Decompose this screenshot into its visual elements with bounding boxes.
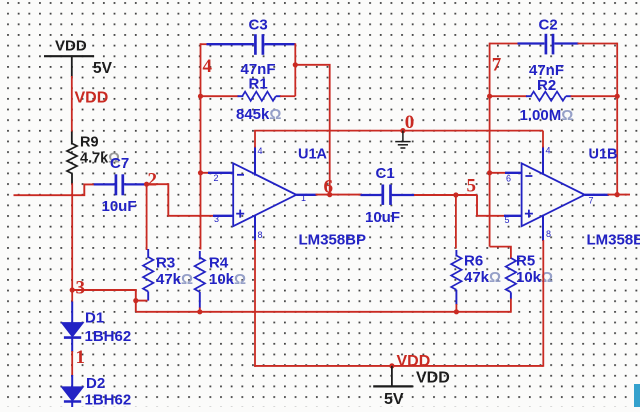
junction R2 right xyxy=(615,94,620,99)
svg-text:LM358BP: LM358BP xyxy=(299,232,367,249)
resistor R6 xyxy=(451,256,461,290)
wire R9/node3 vertical xyxy=(71,183,73,290)
svg-text:U1B: U1B xyxy=(589,147,618,163)
junction U1B output xyxy=(615,192,620,197)
op-amp U1A minus sign xyxy=(237,174,244,176)
wire VDD stem black upper xyxy=(71,56,73,77)
op-amp U1A plus sign xyxy=(236,210,244,218)
resistor R2 left lead xyxy=(526,95,532,97)
wire bottom rail xyxy=(136,311,511,313)
svg-text:VDD: VDD xyxy=(397,353,431,370)
wire R4 bottom xyxy=(199,308,201,312)
junction node4 minus input xyxy=(198,170,203,175)
svg-text:VDD: VDD xyxy=(75,90,109,107)
diode D1 top lead blue xyxy=(71,302,73,324)
capacitor C3 left lead xyxy=(207,43,254,45)
svg-text:U1A: U1A xyxy=(298,147,328,163)
svg-text:1BH62: 1BH62 xyxy=(85,328,132,345)
wire U1B pin4 to gnd rail xyxy=(542,131,544,148)
junction R3 bottom xyxy=(133,298,138,303)
svg-text:LM358BP: LM358BP xyxy=(587,232,640,249)
wire VDD stem red xyxy=(71,76,73,132)
svg-text:C3: C3 xyxy=(249,17,268,34)
wire VDD bottom rail xyxy=(254,365,543,367)
op-amp U1B plus lead xyxy=(504,215,522,217)
wire minus input stub xyxy=(201,172,212,174)
resistor R3 top lead xyxy=(147,249,149,258)
svg-text:3: 3 xyxy=(76,278,86,299)
wire node6 to C1 xyxy=(361,194,362,196)
power VDD bottom stem xyxy=(391,366,393,387)
wire R2 right xyxy=(571,95,618,97)
wire C1 to node5 xyxy=(414,194,477,196)
wire input horizontal xyxy=(14,184,95,195)
diode D1 top lead red xyxy=(71,290,73,303)
svg-text:C1: C1 xyxy=(376,165,395,182)
svg-text:845kΩ: 845kΩ xyxy=(236,106,281,123)
wire node4 vertical xyxy=(200,43,202,249)
wire feedback to output xyxy=(295,65,329,195)
junction ground xyxy=(400,128,405,133)
wire ground rail xyxy=(254,130,543,132)
resistor R5 xyxy=(506,258,516,292)
svg-text:1BH62: 1BH62 xyxy=(85,392,132,408)
wire R6 bottom xyxy=(455,304,457,312)
svg-text:R6: R6 xyxy=(464,253,483,270)
resistor R3 xyxy=(143,257,153,292)
svg-text:D1: D1 xyxy=(85,310,104,327)
svg-text:VDD: VDD xyxy=(55,38,87,55)
op-amp U1B plus sign xyxy=(525,210,533,218)
svg-text:10uF: 10uF xyxy=(365,209,400,226)
op-amp U1A plus lead xyxy=(213,215,233,217)
svg-text:5V: 5V xyxy=(93,60,113,77)
resistor R9 xyxy=(67,144,77,174)
node 2 junction xyxy=(144,182,149,187)
capacitor C1 right lead xyxy=(392,194,415,196)
junction node6 xyxy=(327,192,332,197)
ground symbol xyxy=(395,131,410,148)
wire C3 right vertical xyxy=(294,43,296,96)
svg-text:5: 5 xyxy=(467,176,477,197)
svg-text:1: 1 xyxy=(301,193,306,203)
svg-text:10kΩ: 10kΩ xyxy=(516,269,553,286)
node 3 junction xyxy=(70,287,75,292)
junction node5 xyxy=(453,192,458,197)
op-amp U1A output lead xyxy=(296,194,316,196)
svg-text:R1: R1 xyxy=(249,76,268,93)
resistor R1 xyxy=(242,92,275,101)
wire net1 xyxy=(71,351,73,376)
ui scrollbar fragment xyxy=(634,384,640,407)
wire R9 top lead black xyxy=(71,132,73,145)
op-amp U1A pin8 stub xyxy=(254,215,256,241)
wire R9 bottom lead black xyxy=(71,174,73,184)
op-amp U1A minus lead xyxy=(208,172,233,174)
resistor R3 bottom lead xyxy=(147,292,149,301)
svg-text:47kΩ: 47kΩ xyxy=(464,269,501,286)
wire R1 left xyxy=(201,95,239,97)
wire U1A pin8 down xyxy=(254,240,256,367)
op-amp U1A pin4 stub xyxy=(254,147,256,176)
capacitor C2 xyxy=(545,34,548,55)
capacitor C3 right lead xyxy=(264,43,295,45)
capacitor C1 xyxy=(381,185,384,205)
svg-text:1: 1 xyxy=(76,347,86,368)
op-amp U1A triangle xyxy=(233,163,296,226)
resistor R1 right lead xyxy=(276,95,281,97)
resistor R2 xyxy=(531,92,566,101)
capacitor C7 right lead xyxy=(124,183,147,185)
op-amp U1B minus sign xyxy=(525,175,532,177)
svg-text:R3: R3 xyxy=(156,255,175,272)
op-amp U1B pin8 stub xyxy=(542,215,544,241)
resistor R4 top lead xyxy=(199,251,201,259)
svg-text:5: 5 xyxy=(505,215,510,225)
resistor R4 xyxy=(195,258,205,293)
wire U1B output xyxy=(608,194,631,196)
svg-text:7: 7 xyxy=(589,196,594,206)
svg-text:7: 7 xyxy=(492,54,502,75)
wire U1B minus stub xyxy=(490,172,507,174)
resistor R5 bottom lead xyxy=(510,292,512,299)
junction R4 bottom xyxy=(197,309,202,314)
diode D1 bottom lead xyxy=(71,338,73,352)
resistor R4 bottom lead xyxy=(199,292,201,309)
svg-text:1.00MΩ: 1.00MΩ xyxy=(520,107,574,124)
svg-text:0: 0 xyxy=(405,112,415,133)
svg-text:8: 8 xyxy=(546,229,551,239)
resistor R2 right lead xyxy=(566,95,572,97)
wire node3 to R3 xyxy=(72,290,136,312)
capacitor C3 xyxy=(254,34,257,55)
svg-text:R5: R5 xyxy=(516,253,535,270)
power VDD bottom bar xyxy=(373,385,413,387)
wire node5 to U1B plus xyxy=(477,195,506,216)
capacitor C1 left lead xyxy=(361,194,382,196)
diode D1 xyxy=(61,323,83,337)
junction VDD bottom xyxy=(389,363,394,368)
svg-text:6: 6 xyxy=(324,177,334,198)
op-amp U1B minus lead xyxy=(505,172,522,174)
capacitor C7 xyxy=(115,174,118,195)
junction feedback tap xyxy=(293,62,298,67)
svg-text:4: 4 xyxy=(203,56,213,77)
wire R5 bottom xyxy=(510,299,512,313)
wire C2 box right vertical xyxy=(616,43,618,195)
svg-text:5V: 5V xyxy=(384,391,404,407)
wire C2 box top-left xyxy=(490,43,519,45)
svg-text:6: 6 xyxy=(506,174,511,184)
wire node7 vertical xyxy=(489,43,491,247)
wire U1B pin8 down xyxy=(542,240,544,367)
resistor R1 left lead xyxy=(238,95,244,97)
wire U1A output xyxy=(316,194,363,196)
svg-text:4: 4 xyxy=(546,146,551,156)
wire R3 bottom stub xyxy=(136,300,148,302)
capacitor C2 right lead xyxy=(554,42,578,44)
svg-text:C2: C2 xyxy=(539,17,558,34)
svg-text:VDD: VDD xyxy=(416,370,450,387)
wire C2 box top-right xyxy=(578,43,618,45)
diode D2 top lead xyxy=(71,375,73,388)
junction node7 R2 xyxy=(487,94,492,99)
svg-text:2: 2 xyxy=(214,173,219,183)
svg-text:4: 4 xyxy=(258,146,263,156)
svg-text:R2: R2 xyxy=(537,77,556,94)
svg-text:C7: C7 xyxy=(110,155,129,172)
wire R2 left xyxy=(490,95,527,97)
svg-text:8: 8 xyxy=(258,230,263,240)
svg-text:3: 3 xyxy=(214,214,219,224)
wire node2 down to R3 xyxy=(146,184,148,250)
diode D2 xyxy=(61,387,83,401)
wire C3 left corner xyxy=(201,43,208,45)
svg-text:47kΩ: 47kΩ xyxy=(156,271,193,288)
svg-text:2: 2 xyxy=(148,170,158,191)
svg-text:R4: R4 xyxy=(209,255,229,272)
diode D2 bottom lead xyxy=(71,402,73,408)
junction node7 minus xyxy=(487,170,492,175)
junction node4 R1 xyxy=(198,94,203,99)
op-amp U1B output lead xyxy=(585,194,609,196)
svg-text:D2: D2 xyxy=(86,375,105,392)
wire R1 right xyxy=(280,95,295,97)
wire node5 down to R6 xyxy=(455,195,457,249)
svg-text:R9: R9 xyxy=(80,135,99,151)
resistor R6 bottom lead xyxy=(455,290,457,305)
capacitor C7 left lead xyxy=(94,183,115,185)
resistor R6 top lead xyxy=(455,250,457,257)
svg-text:10kΩ: 10kΩ xyxy=(209,271,246,288)
op-amp U1B pin4 stub xyxy=(542,147,544,175)
svg-text:10uF: 10uF xyxy=(102,198,137,215)
junction R6 bottom xyxy=(454,309,459,314)
capacitor C2 left lead xyxy=(518,42,545,44)
wire U1A pin4 to gnd rail xyxy=(254,131,256,148)
wire R5 top jog xyxy=(490,247,511,259)
op-amp U1B triangle xyxy=(522,163,585,226)
wire node2 to opamp + xyxy=(147,184,215,216)
power VDD top bar xyxy=(44,55,94,57)
